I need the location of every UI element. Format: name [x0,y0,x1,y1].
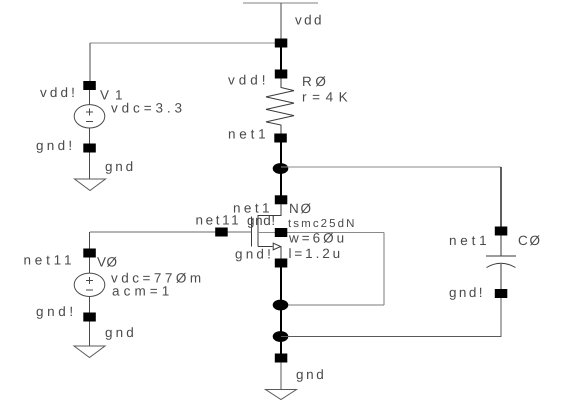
wire net11 gate horizontal [90,231,252,233]
svg-text:net11: net11 [24,253,76,268]
pin square C0 top [495,227,508,236]
wire C0 branch vertical down [500,167,502,227]
wire vdd node to V1 branch [90,42,275,44]
wire V1 to gnd symbol [89,153,91,180]
source V1 body [89,90,91,105]
svg-text:vdd!: vdd! [40,85,78,100]
svg-text:acm=1: acm=1 [112,284,173,299]
svg-text:VØ: VØ [97,255,118,270]
transistor N0 source leg [258,246,273,248]
transistor N0 source arrow [273,243,281,250]
wire cap bottom loop [281,298,501,337]
svg-text:RØ: RØ [302,74,329,89]
pin square V0 minus [83,313,96,322]
transistor N0 gate plate [251,217,253,247]
wire V1 branch vertical [89,43,91,81]
transistor N0 source wire to pin [280,247,282,259]
svg-text:l=1.2u: l=1.2u [289,246,344,261]
transistor N0 drain leg [258,204,281,247]
pin square gnd [275,354,288,363]
pin square N0 drain [275,195,288,204]
svg-text:gnd!: gnd! [36,138,75,153]
pin square V0 plus [83,249,96,258]
wire V0 to gnd symbol [89,322,91,347]
wire bulk loop right and down [281,233,384,306]
junction dot source-cap [273,331,289,342]
pin square V1 minus [83,144,96,153]
wire net1 vertical R0 to N0 drain [280,143,282,197]
svg-text:w=6Øu: w=6Øu [288,231,347,246]
ground symbol bottom [266,390,297,400]
svg-text:gnd!: gnd! [247,213,276,228]
pin square R0 top (vdd!) [275,70,288,79]
wire source to gnd vertical [280,268,282,363]
svg-text:vdc=3.3: vdc=3.3 [111,101,186,116]
svg-text:net11: net11 [196,213,242,228]
svg-text:tsmc25dN: tsmc25dN [288,218,357,230]
svg-text:gnd: gnd [296,367,326,382]
pin square N0 bulk [275,228,288,237]
svg-text:r=4K: r=4K [302,90,353,105]
svg-text:gnd: gnd [105,159,136,174]
pin square R0 bottom (net1) [274,134,287,143]
wire vdd rail to vdd node [280,3,282,39]
svg-text:gnd!: gnd! [36,304,77,319]
wire to ground symbol [280,363,282,390]
source V0 body [89,258,91,274]
pin square net11 stub [215,228,228,237]
pin square N0 source [275,259,288,268]
pin square C0 bottom [495,289,508,298]
svg-text:NØ: NØ [289,201,313,216]
ground symbol V1 [75,179,106,191]
svg-text:vdd: vdd [295,13,324,28]
wire vdd square to R0 [280,48,282,70]
svg-text:vdd!: vdd! [228,73,270,88]
junction dot net1 [273,163,289,174]
svg-text:gnd: gnd [105,325,137,340]
svg-text:net1: net1 [449,233,490,248]
wire net1 to C0 top horizontal [281,166,501,168]
capacitor C0 plates [486,236,516,257]
pin square V1 plus [83,81,96,90]
wire V0 branch vertical [89,232,91,249]
ground symbol V0 [74,346,105,358]
wire bulk horizontal [258,232,384,234]
resistor R0 body [266,79,294,134]
svg-text:gnd!: gnd! [235,247,274,262]
svg-text:gnd!: gnd! [449,285,485,300]
svg-text:net1: net1 [228,127,269,142]
wire vdd rail [243,2,318,4]
svg-text:CØ: CØ [518,233,542,248]
junction dot source-bulk [273,300,289,311]
junction square vdd [275,39,288,48]
